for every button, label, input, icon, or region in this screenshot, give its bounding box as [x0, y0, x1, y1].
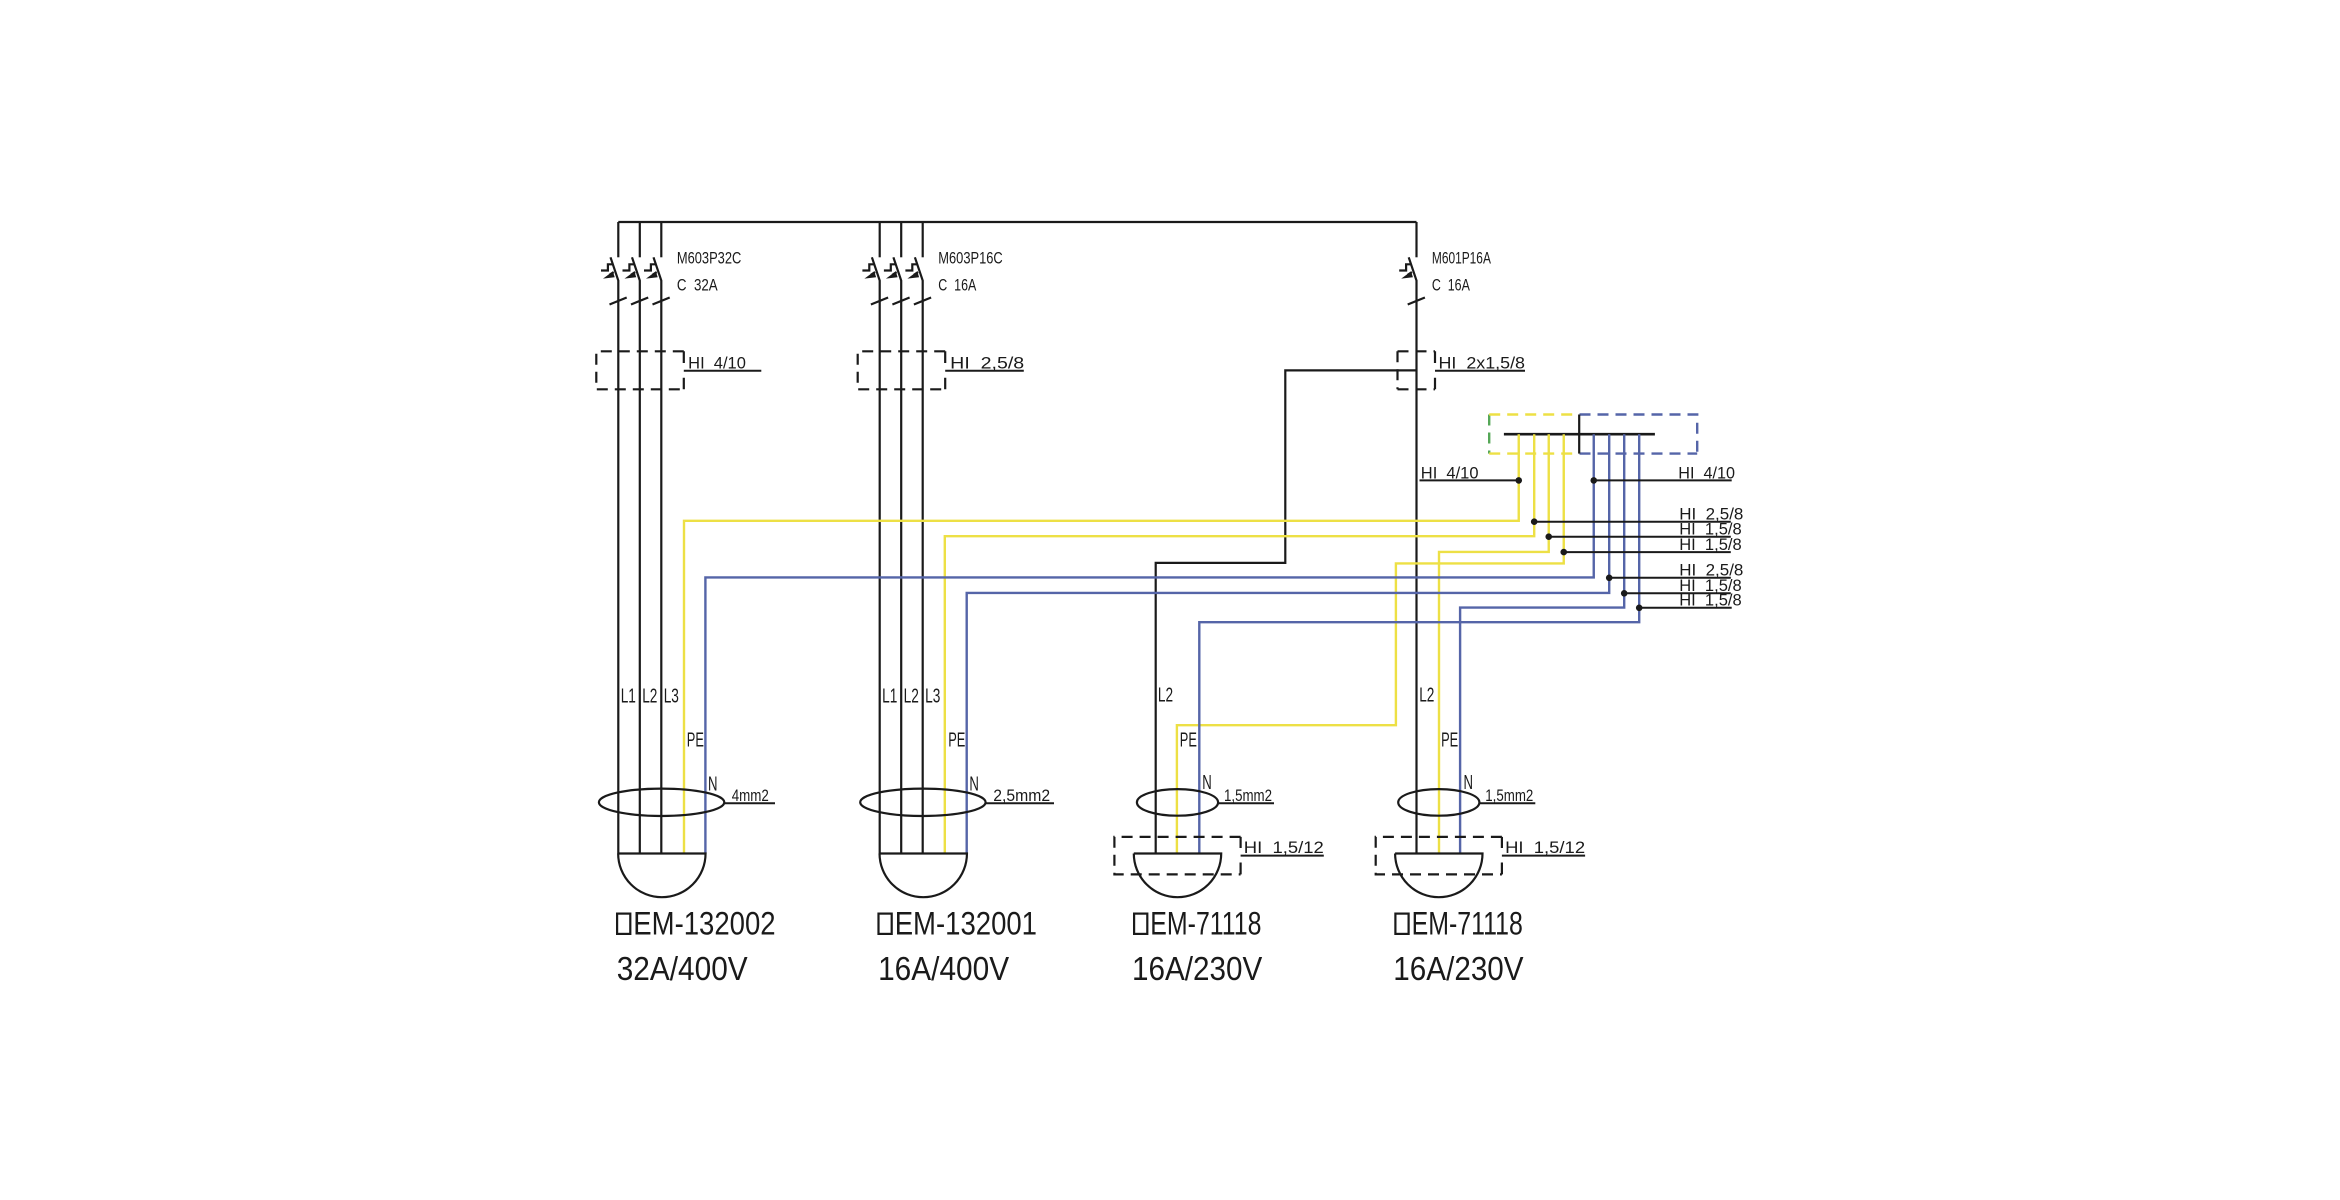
socket X3 cable marker box HI 1,5/12 — [1114, 837, 1323, 875]
svg-text:HI 4/10: HI 4/10 — [1421, 463, 1479, 482]
svg-text:16A/230V: 16A/230V — [1132, 951, 1263, 988]
svg-text:EM-132002: EM-132002 — [633, 906, 775, 942]
socket X3 cable ellipse — [1137, 789, 1218, 816]
wire N1 (blue) bar to socket X1 — [705, 434, 1593, 853]
svg-text:16A/230V: 16A/230V — [1393, 951, 1524, 988]
svg-text:L1: L1 — [621, 685, 636, 707]
svg-text:PE: PE — [948, 729, 965, 751]
svg-text:C 16A: C 16A — [1432, 276, 1471, 295]
svg-text:N: N — [969, 774, 979, 796]
svg-text:C 16A: C 16A — [938, 276, 977, 295]
breaker Q2 pole L3 — [905, 222, 931, 854]
leader HI 2,5/8 lower — [1606, 561, 1744, 581]
svg-text:16A/400V: 16A/400V — [878, 951, 1010, 988]
svg-text:N: N — [708, 774, 718, 796]
socket X4 wire size 1,5mm2 — [1480, 802, 1536, 804]
socket X2 dome — [880, 854, 967, 898]
leader HI 4/10 right — [1590, 463, 1735, 483]
svg-text:HI 1,5/12: HI 1,5/12 — [1505, 839, 1585, 857]
svg-text:PE: PE — [1180, 729, 1197, 751]
svg-text:1,5mm2: 1,5mm2 — [1224, 787, 1272, 805]
leader HI 1,5/8 upper2 — [1560, 535, 1741, 555]
leader HI 1,5/8 lower2 — [1636, 591, 1742, 611]
socket X3 wire size 1,5mm2 — [1218, 802, 1274, 804]
wire N4 (blue) bar to socket X4 — [1460, 434, 1624, 853]
wire N3 (blue) bar to socket X3 — [1199, 434, 1639, 853]
svg-text:32A/400V: 32A/400V — [617, 951, 749, 988]
svg-text:PE: PE — [1441, 729, 1458, 751]
svg-text:EM-71118: EM-71118 — [1412, 906, 1523, 942]
PE bar (green/yellow dashed box) — [1489, 415, 1578, 454]
socket X1 cable ellipse — [599, 789, 724, 816]
svg-text:EM-132001: EM-132001 — [895, 906, 1037, 942]
svg-text:L2: L2 — [642, 685, 657, 707]
svg-text:HI 1,5/12: HI 1,5/12 — [1244, 839, 1324, 857]
leader HI 1,5/8 lower1 — [1621, 576, 1742, 596]
svg-text:N: N — [1464, 772, 1474, 794]
svg-text:HI 1,5/8: HI 1,5/8 — [1679, 535, 1742, 554]
socket X4 dome — [1395, 854, 1482, 898]
breaker Q1 pole L2 — [623, 222, 649, 854]
socket X1 wire size 4mm2 — [724, 802, 775, 804]
svg-text:N: N — [1202, 772, 1212, 794]
socket X2 designation — [879, 914, 892, 934]
breaker Q2 pole L2 — [884, 222, 910, 854]
wire PE2 (yellow) bar to socket X2 — [945, 434, 1534, 853]
breaker Q1 M603P32C pole L1 — [601, 222, 627, 854]
socket X2 cable ellipse — [860, 789, 985, 816]
cable marker box HI 4/10 at Q1 — [596, 351, 761, 389]
bar split stem — [1578, 415, 1580, 454]
svg-text:C 32A: C 32A — [677, 276, 718, 295]
wire: top feed bus — [618, 221, 1416, 223]
svg-text:M603P32C: M603P32C — [677, 249, 741, 268]
svg-text:M601P16A: M601P16A — [1432, 249, 1492, 268]
socket X3 designation — [1134, 914, 1147, 934]
terminal bar — [1504, 433, 1655, 436]
svg-text:EM-71118: EM-71118 — [1150, 906, 1261, 942]
wire PE4 (yellow) bar to socket X4 — [1439, 434, 1549, 853]
socket X3 dome — [1134, 854, 1221, 898]
svg-text:HI 2,5/8: HI 2,5/8 — [950, 355, 1024, 373]
svg-text:M603P16C: M603P16C — [938, 249, 1002, 268]
svg-text:L2: L2 — [1158, 684, 1173, 706]
svg-text:HI 4/10: HI 4/10 — [688, 355, 746, 373]
leader HI 1,5/8 upper1 — [1545, 520, 1741, 540]
breaker Q2 M603P16C pole L1 — [862, 222, 888, 854]
wire N2 (blue) bar to socket X2 — [967, 434, 1609, 853]
svg-text:HI 4/10: HI 4/10 — [1678, 463, 1735, 482]
svg-text:HI 1,5/8: HI 1,5/8 — [1679, 591, 1742, 610]
wire PE3 (yellow) bar to socket X3 — [1177, 434, 1564, 853]
socket X1 dome — [618, 854, 705, 898]
socket X1 designation — [617, 914, 630, 934]
leader HI 4/10 left — [1420, 463, 1523, 483]
svg-text:L3: L3 — [664, 685, 679, 707]
svg-text:4mm2: 4mm2 — [732, 787, 769, 805]
socket X4 cable ellipse — [1398, 789, 1479, 816]
breaker Q3 M601P16A single pole — [1399, 222, 1425, 854]
N bar (blue dashed box) — [1580, 415, 1698, 454]
socket X4 cable marker box HI 1,5/12 — [1376, 837, 1585, 875]
svg-text:L1: L1 — [882, 685, 897, 707]
wire PE1 (yellow) bar to socket X1 — [684, 434, 1519, 853]
svg-text:PE: PE — [687, 729, 704, 751]
svg-text:1,5mm2: 1,5mm2 — [1485, 787, 1533, 805]
breaker Q1 pole L3 — [644, 222, 670, 854]
socket X4 designation — [1395, 914, 1408, 934]
socket X2 wire size 2,5mm2 — [986, 802, 1054, 804]
svg-text:2,5mm2: 2,5mm2 — [993, 787, 1050, 805]
svg-text:L3: L3 — [925, 685, 940, 707]
cable marker box HI 2,5/8 at Q2 — [858, 351, 1024, 389]
svg-text:HI 2x1,5/8: HI 2x1,5/8 — [1439, 355, 1526, 373]
wire: L2 branch from Q3 box to socket X3 — [1156, 370, 1417, 853]
svg-text:L2: L2 — [904, 685, 919, 707]
cable marker box HI 2x1,5/8 at Q3 — [1398, 351, 1526, 389]
svg-text:L2: L2 — [1419, 684, 1434, 706]
leader HI 2,5/8 upper — [1531, 505, 1744, 525]
